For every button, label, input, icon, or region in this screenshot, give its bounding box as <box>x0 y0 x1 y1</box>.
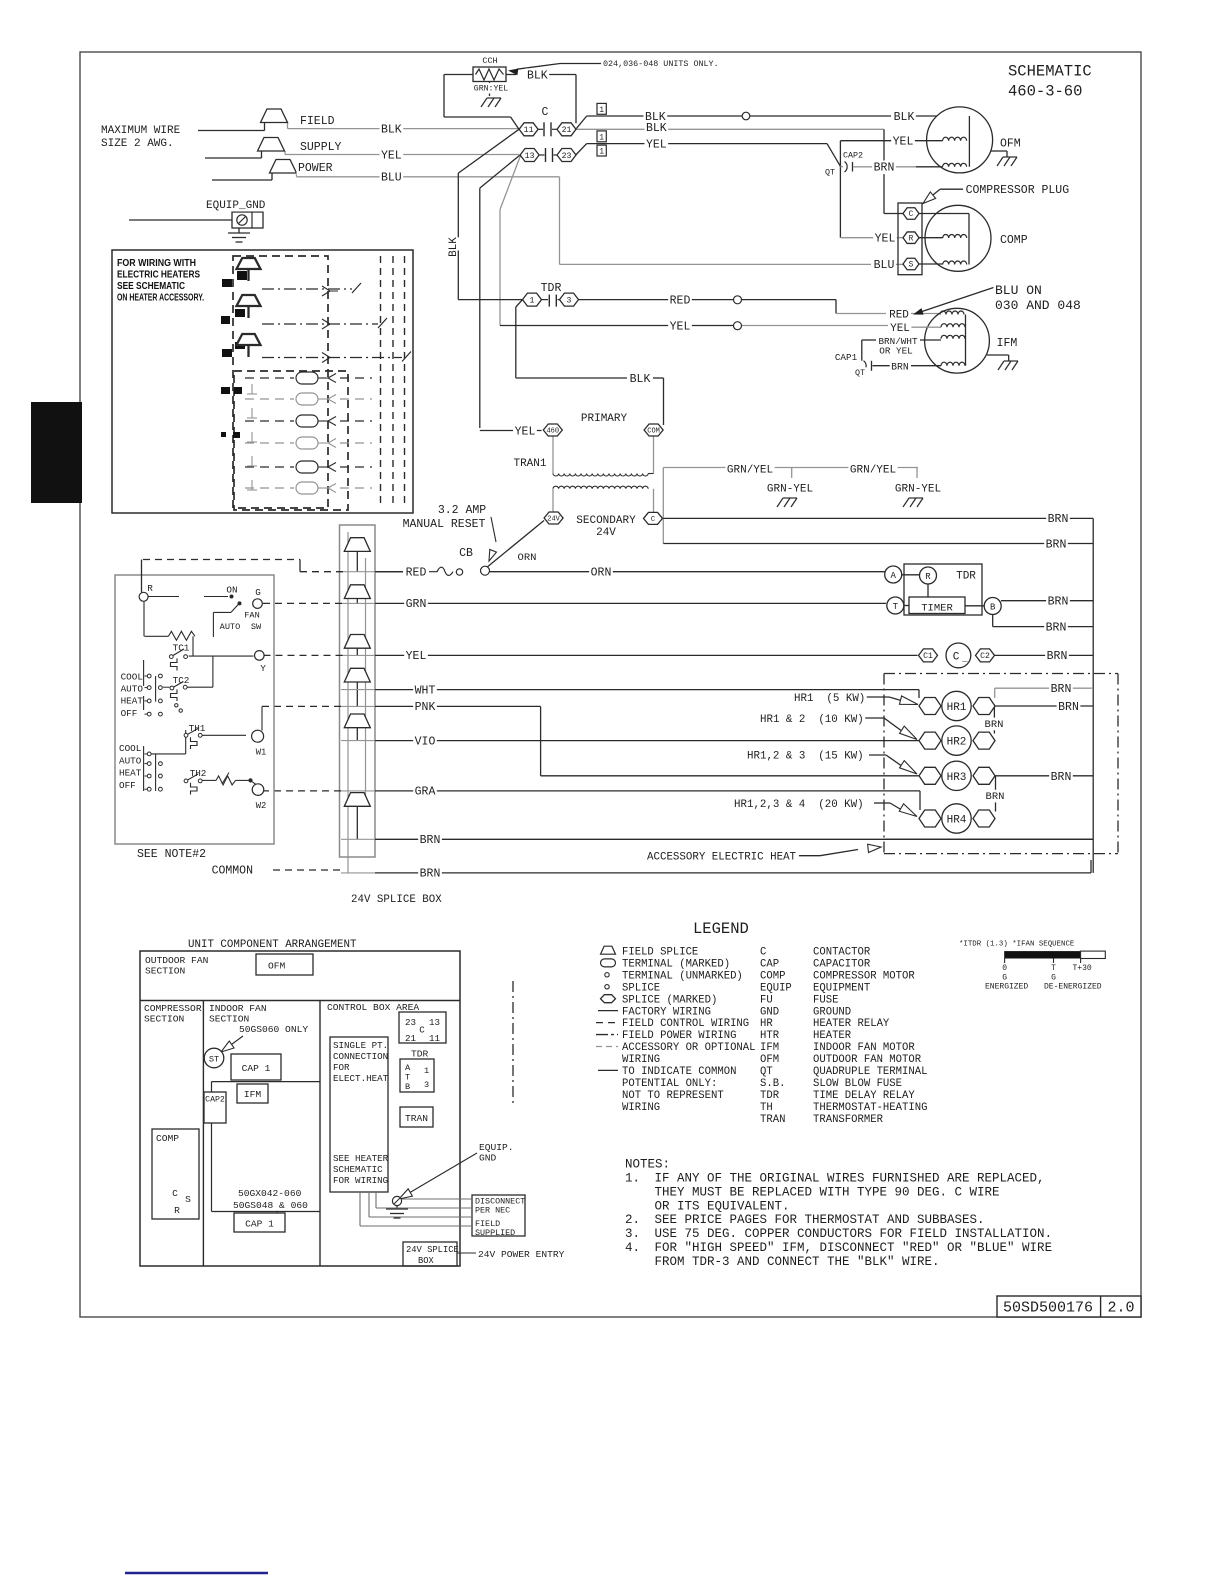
svg-text:GRN-YEL: GRN-YEL <box>895 484 941 496</box>
svg-text:COMP: COMP <box>156 1133 179 1144</box>
svg-text:50GS060 ONLY: 50GS060 ONLY <box>239 1024 308 1035</box>
svg-text:YEL: YEL <box>890 323 910 335</box>
svg-text:FU: FU <box>760 994 773 1006</box>
svg-text:HR4: HR4 <box>947 815 967 827</box>
svg-text:BLU ON: BLU ON <box>995 283 1042 298</box>
svg-text:UNIT COMPONENT ARRANGEMENT: UNIT COMPONENT ARRANGEMENT <box>188 939 357 951</box>
svg-text:3.2 AMP: 3.2 AMP <box>438 504 486 517</box>
svg-text:INDOOR FAN MOTOR: INDOOR FAN MOTOR <box>813 1042 915 1054</box>
svg-text:W2: W2 <box>256 801 267 811</box>
svg-text:HEAT: HEAT <box>121 696 144 707</box>
svg-text:PRIMARY: PRIMARY <box>581 413 628 425</box>
svg-text:C: C <box>953 651 960 663</box>
svg-text:A: A <box>405 1063 411 1073</box>
svg-text:50GS048 & 060: 50GS048 & 060 <box>233 1200 308 1211</box>
svg-text:S: S <box>185 1194 191 1205</box>
svg-text:GRN: GRN <box>406 598 427 611</box>
svg-text:FOR: FOR <box>333 1062 350 1073</box>
svg-text:B: B <box>405 1082 410 1092</box>
svg-text:IFM: IFM <box>760 1042 779 1054</box>
svg-text:ELECT.HEAT: ELECT.HEAT <box>333 1073 389 1084</box>
svg-text:C: C <box>760 947 766 959</box>
svg-text:FOR WIRING WITH: FOR WIRING WITH <box>117 257 196 269</box>
svg-text:21: 21 <box>562 126 572 135</box>
svg-text:IFM: IFM <box>244 1089 262 1100</box>
svg-text:AUTO: AUTO <box>121 683 144 694</box>
svg-text:2.: 2. <box>625 1213 640 1227</box>
svg-text:TIME DELAY RELAY: TIME DELAY RELAY <box>813 1090 915 1102</box>
svg-text:SECONDARY: SECONDARY <box>576 515 636 527</box>
svg-text:FIELD SPLICE: FIELD SPLICE <box>622 947 698 959</box>
svg-text:ON HEATER ACCESSORY.: ON HEATER ACCESSORY. <box>117 292 204 304</box>
svg-text:THEY MUST BE REPLACED WITH TYP: THEY MUST BE REPLACED WITH TYPE 90 DEG. … <box>655 1185 1000 1199</box>
svg-text:B: B <box>990 603 996 613</box>
svg-text:R: R <box>909 235 914 243</box>
svg-text:C: C <box>651 516 655 524</box>
svg-text:A: A <box>890 571 896 581</box>
svg-text:SECTION: SECTION <box>209 1014 249 1025</box>
svg-text:QUADRUPLE TERMINAL: QUADRUPLE TERMINAL <box>813 1066 927 1078</box>
svg-text:SUPPLY: SUPPLY <box>300 141 342 154</box>
svg-text:CAP 1: CAP 1 <box>242 1063 271 1074</box>
svg-text:460: 460 <box>546 427 559 435</box>
svg-text:SCHEMATIC: SCHEMATIC <box>1008 63 1092 81</box>
svg-text:CB: CB <box>459 547 473 560</box>
svg-text:MAXIMUM WIRE: MAXIMUM WIRE <box>101 125 181 137</box>
svg-text:WHT: WHT <box>415 684 436 697</box>
svg-text:W1: W1 <box>256 748 267 758</box>
svg-text:NOTES:: NOTES: <box>625 1158 670 1172</box>
svg-text:CONNECTION: CONNECTION <box>333 1051 388 1062</box>
svg-text:24V SPLICE BOX: 24V SPLICE BOX <box>351 894 442 906</box>
svg-text:SEE NOTE#2: SEE NOTE#2 <box>137 848 206 861</box>
svg-text:TH1: TH1 <box>189 723 206 734</box>
svg-text:ELECTRIC HEATERS: ELECTRIC HEATERS <box>117 269 200 281</box>
svg-text:GRA: GRA <box>415 786 436 799</box>
svg-text:OUTDOOR FAN MOTOR: OUTDOOR FAN MOTOR <box>813 1054 922 1066</box>
svg-text:IFM: IFM <box>997 337 1018 350</box>
svg-text:DE-ENERGIZED: DE-ENERGIZED <box>1044 982 1102 991</box>
svg-text:1.: 1. <box>625 1172 640 1186</box>
svg-text:RED: RED <box>406 567 427 580</box>
svg-text:G: G <box>1002 974 1007 983</box>
svg-text:GRN:YEL: GRN:YEL <box>474 85 508 94</box>
svg-text:OFF: OFF <box>121 708 138 719</box>
svg-text:MANUAL RESET: MANUAL RESET <box>403 518 486 531</box>
svg-text:TERMINAL (MARKED): TERMINAL (MARKED) <box>622 958 730 970</box>
svg-text:BRN: BRN <box>420 868 441 881</box>
svg-text:ACCESSORY ELECTRIC HEAT: ACCESSORY ELECTRIC HEAT <box>647 852 797 864</box>
svg-text:Y: Y <box>260 663 266 674</box>
svg-text:0: 0 <box>1002 964 1007 973</box>
svg-text:TRANSFORMER: TRANSFORMER <box>813 1114 884 1126</box>
svg-text:USE 75 DEG. COPPER CONDUCTORS: USE 75 DEG. COPPER CONDUCTORS FOR FIELD … <box>655 1227 1053 1241</box>
svg-text:TC1: TC1 <box>173 643 190 654</box>
svg-text:OFM: OFM <box>760 1054 779 1066</box>
svg-text:GND: GND <box>760 1006 779 1018</box>
svg-text:PNK: PNK <box>415 701 436 714</box>
svg-text:CAPACITOR: CAPACITOR <box>813 958 871 970</box>
svg-text:PER NEC: PER NEC <box>475 1206 510 1216</box>
svg-text:OR YEL: OR YEL <box>879 346 912 357</box>
svg-text:BRN: BRN <box>1048 513 1069 526</box>
svg-text:BRN: BRN <box>1046 621 1067 634</box>
svg-text:ACCESSORY OR OPTIONAL: ACCESSORY OR OPTIONAL <box>622 1042 756 1054</box>
svg-text:C: C <box>909 211 914 219</box>
svg-text:C: C <box>172 1188 178 1199</box>
svg-text:SEE HEATER: SEE HEATER <box>333 1153 389 1164</box>
svg-text:BRN: BRN <box>874 162 895 175</box>
svg-text:BRN: BRN <box>986 791 1005 803</box>
svg-text:AUTO: AUTO <box>119 755 142 766</box>
svg-text:YEL: YEL <box>670 320 691 333</box>
svg-text:3: 3 <box>424 1080 429 1090</box>
svg-text:COMMON: COMMON <box>212 864 253 877</box>
svg-text:HR1 (5 KW): HR1 (5 KW) <box>794 693 865 705</box>
svg-text:BRN: BRN <box>1047 650 1068 663</box>
svg-text:BRN: BRN <box>985 719 1004 731</box>
svg-text:G: G <box>1051 974 1056 983</box>
svg-text:24V POWER ENTRY: 24V POWER ENTRY <box>478 1249 565 1260</box>
svg-text:HEATER RELAY: HEATER RELAY <box>813 1018 890 1030</box>
svg-text:CAP2: CAP2 <box>843 151 863 161</box>
svg-text:CONTACTOR: CONTACTOR <box>813 947 871 959</box>
svg-text:CAP: CAP <box>760 958 779 970</box>
svg-text:FIELD POWER WIRING: FIELD POWER WIRING <box>622 1030 736 1042</box>
svg-text:POTENTIAL ONLY:: POTENTIAL ONLY: <box>622 1078 717 1090</box>
svg-text:EQUIP: EQUIP <box>760 982 792 994</box>
svg-text:HTR: HTR <box>760 1030 780 1042</box>
svg-text:QT: QT <box>855 368 865 378</box>
svg-text:FIELD CONTROL WIRING: FIELD CONTROL WIRING <box>622 1018 749 1030</box>
svg-text:SW: SW <box>251 622 262 632</box>
svg-text:OFM: OFM <box>1000 138 1021 151</box>
svg-text:TERMINAL (UNMARKED): TERMINAL (UNMARKED) <box>622 970 743 982</box>
svg-text:RED: RED <box>670 294 691 307</box>
svg-text:*ITDR (1.3) *IFAN SEQUENCE: *ITDR (1.3) *IFAN SEQUENCE <box>959 941 1075 949</box>
svg-text:SPLICE (MARKED): SPLICE (MARKED) <box>622 994 717 1006</box>
svg-text:ENERGIZED: ENERGIZED <box>985 982 1028 991</box>
svg-text:FIELD: FIELD <box>300 115 335 128</box>
svg-text:T: T <box>1051 964 1056 973</box>
svg-text:POWER: POWER <box>298 162 333 175</box>
svg-text:SLOW BLOW FUSE: SLOW BLOW FUSE <box>813 1078 902 1090</box>
svg-text:GRN-YEL: GRN-YEL <box>767 484 813 496</box>
svg-text:COOL: COOL <box>119 743 141 754</box>
svg-text:QT: QT <box>825 168 835 178</box>
svg-text:WIRING: WIRING <box>622 1054 660 1066</box>
svg-text:BLK: BLK <box>381 123 402 136</box>
svg-text:EQUIP_GND: EQUIP_GND <box>206 200 266 212</box>
svg-text:TH: TH <box>760 1102 773 1114</box>
svg-text:YEL: YEL <box>515 425 536 438</box>
svg-text:YEL: YEL <box>646 138 667 151</box>
svg-text:TDR: TDR <box>541 282 562 295</box>
svg-text:OFF: OFF <box>119 780 136 791</box>
svg-text:FUSE: FUSE <box>813 994 838 1006</box>
svg-text:TC2: TC2 <box>173 675 190 686</box>
svg-text:IF ANY OF THE ORIGINAL WIRES F: IF ANY OF THE ORIGINAL WIRES FURNISHED A… <box>655 1172 1045 1186</box>
svg-text:YEL: YEL <box>406 650 427 663</box>
svg-text:VIO: VIO <box>415 735 436 748</box>
svg-text:R: R <box>147 583 153 594</box>
svg-text:BLU: BLU <box>874 259 895 272</box>
svg-text:LEGEND: LEGEND <box>693 920 749 938</box>
svg-text:SUPPLIED: SUPPLIED <box>475 1228 515 1238</box>
svg-text:COM: COM <box>647 427 660 435</box>
svg-text:TDR: TDR <box>760 1090 780 1102</box>
svg-text:24V SPLICE: 24V SPLICE <box>406 1245 459 1255</box>
svg-text:FROM TDR-3 AND CONNECT THE "BL: FROM TDR-3 AND CONNECT THE "BLK" WIRE. <box>655 1255 940 1269</box>
svg-text:OFM: OFM <box>268 961 286 972</box>
svg-text:HR1,2,3 & 4 (20 KW): HR1,2,3 & 4 (20 KW) <box>734 799 864 811</box>
svg-text:1: 1 <box>599 106 604 115</box>
svg-text:INDOOR FAN: INDOOR FAN <box>209 1003 267 1014</box>
svg-text:COMP: COMP <box>1000 234 1028 247</box>
svg-text:COMPRESSOR MOTOR: COMPRESSOR MOTOR <box>813 970 915 982</box>
svg-text:OUTDOOR FAN: OUTDOOR FAN <box>145 955 208 966</box>
svg-text:COOL: COOL <box>121 672 143 683</box>
svg-text:BLK: BLK <box>646 122 667 135</box>
svg-text:024,036-048 UNITS ONLY.: 024,036-048 UNITS ONLY. <box>603 59 719 69</box>
svg-text:TO INDICATE COMMON: TO INDICATE COMMON <box>622 1066 736 1078</box>
svg-text:TDR: TDR <box>956 571 976 583</box>
svg-text:G: G <box>255 587 261 598</box>
svg-text:FAN: FAN <box>244 611 259 621</box>
svg-text:BLK: BLK <box>448 237 460 257</box>
svg-text:2.0: 2.0 <box>1107 1300 1134 1317</box>
svg-text:HR1 & 2 (10 KW): HR1 & 2 (10 KW) <box>760 714 864 726</box>
svg-text:BLU: BLU <box>381 172 402 185</box>
svg-text:GRN/YEL: GRN/YEL <box>727 464 773 476</box>
svg-text:NOT TO REPRESENT: NOT TO REPRESENT <box>622 1090 724 1102</box>
svg-text:SIZE 2 AWG.: SIZE 2 AWG. <box>101 138 174 150</box>
svg-text:CAP 1: CAP 1 <box>245 1219 274 1230</box>
svg-text:ON: ON <box>226 585 237 596</box>
svg-text:BRN: BRN <box>420 834 441 847</box>
svg-text:HR2: HR2 <box>947 737 967 749</box>
svg-text:GRN/YEL: GRN/YEL <box>850 464 896 476</box>
svg-text:T: T <box>893 602 899 612</box>
svg-text:HEAT: HEAT <box>119 768 142 779</box>
svg-text:WIRING: WIRING <box>622 1102 660 1114</box>
svg-text:3.: 3. <box>625 1227 640 1241</box>
svg-text:C: C <box>542 106 549 119</box>
svg-text:BLK: BLK <box>894 111 915 124</box>
svg-text:1: 1 <box>424 1066 429 1076</box>
svg-text:SEE PRICE PAGES FOR THERMOSTAT: SEE PRICE PAGES FOR THERMOSTAT AND SUBBA… <box>655 1213 985 1227</box>
svg-text:COMP: COMP <box>760 970 785 982</box>
svg-text:BRN: BRN <box>1046 538 1067 551</box>
svg-text:TIMER: TIMER <box>921 603 953 615</box>
svg-text:460-3-60: 460-3-60 <box>1008 83 1082 101</box>
svg-text:50SD500176: 50SD500176 <box>1003 1300 1093 1317</box>
svg-text:QT: QT <box>760 1066 773 1078</box>
svg-text:C2: C2 <box>980 652 990 661</box>
svg-text:1: 1 <box>599 134 604 143</box>
svg-text:T+30: T+30 <box>1073 964 1092 973</box>
svg-text:ST: ST <box>209 1055 219 1065</box>
svg-text:SPLICE: SPLICE <box>622 982 660 994</box>
svg-text:EQUIP.: EQUIP. <box>479 1142 514 1153</box>
svg-text:030 AND 048: 030 AND 048 <box>995 298 1081 313</box>
svg-text:CONTROL BOX AREA: CONTROL BOX AREA <box>327 1002 419 1013</box>
svg-text:SEE SCHEMATIC: SEE SCHEMATIC <box>117 280 185 292</box>
svg-text:SECTION: SECTION <box>145 966 185 977</box>
svg-text:1: 1 <box>530 296 535 305</box>
svg-text:BLK: BLK <box>527 69 548 82</box>
svg-text:SECTION: SECTION <box>144 1014 184 1025</box>
svg-text:R: R <box>174 1205 180 1216</box>
svg-text:BRN: BRN <box>1051 771 1072 784</box>
svg-text:RED: RED <box>889 309 909 321</box>
svg-text:S.B.: S.B. <box>760 1078 785 1090</box>
svg-text:C: C <box>419 1025 425 1036</box>
svg-text:FACTORY WIRING: FACTORY WIRING <box>622 1006 711 1018</box>
svg-text:1: 1 <box>599 148 604 157</box>
svg-text:R: R <box>925 572 931 582</box>
svg-text:EQUIPMENT: EQUIPMENT <box>813 982 870 994</box>
svg-text:T: T <box>405 1073 410 1083</box>
svg-text:HEATER: HEATER <box>813 1030 852 1042</box>
svg-text:3: 3 <box>567 296 572 305</box>
svg-text:TRAN: TRAN <box>760 1114 785 1126</box>
svg-text:21: 21 <box>405 1033 417 1044</box>
svg-text:23: 23 <box>562 152 572 161</box>
svg-text:BRN: BRN <box>891 362 909 373</box>
svg-text:HR1,2 & 3 (15 KW): HR1,2 & 3 (15 KW) <box>747 751 864 763</box>
svg-text:HR: HR <box>760 1018 773 1030</box>
svg-text:TRAN1: TRAN1 <box>513 458 546 470</box>
svg-text:FOR WIRING: FOR WIRING <box>333 1175 388 1186</box>
svg-text:TRAN: TRAN <box>405 1113 428 1124</box>
svg-text:4.: 4. <box>625 1241 640 1255</box>
svg-text:24V: 24V <box>547 515 560 523</box>
svg-text:BRN: BRN <box>1048 596 1069 609</box>
svg-text:SINGLE PT.: SINGLE PT. <box>333 1040 388 1051</box>
svg-text:BOX: BOX <box>418 1256 435 1266</box>
svg-text:CAP2: CAP2 <box>205 1096 225 1105</box>
svg-text:GND: GND <box>479 1153 497 1164</box>
svg-text:13: 13 <box>429 1017 440 1028</box>
svg-text:THERMOSTAT-HEATING: THERMOSTAT-HEATING <box>813 1102 927 1114</box>
svg-text:COMPRESSOR PLUG: COMPRESSOR PLUG <box>966 184 1070 197</box>
svg-text:11: 11 <box>524 126 534 135</box>
svg-text:YEL: YEL <box>875 233 896 246</box>
svg-text:SCHEMATIC: SCHEMATIC <box>333 1164 383 1175</box>
svg-text:HR1: HR1 <box>947 702 967 714</box>
svg-text:YEL: YEL <box>893 136 914 149</box>
svg-text:BRN: BRN <box>1058 701 1079 714</box>
svg-text:OR ITS EQUIVALENT.: OR ITS EQUIVALENT. <box>655 1199 790 1213</box>
svg-text:ORN: ORN <box>518 552 537 564</box>
svg-text:BRN: BRN <box>1051 683 1072 696</box>
svg-text:C1: C1 <box>923 652 933 661</box>
svg-text:_: _ <box>961 654 968 664</box>
svg-text:TH2: TH2 <box>190 768 207 779</box>
svg-text:YEL: YEL <box>381 149 402 162</box>
svg-text:50GX042-060: 50GX042-060 <box>238 1188 302 1199</box>
svg-text:S: S <box>909 262 914 270</box>
svg-text:GROUND: GROUND <box>813 1006 851 1018</box>
svg-text:ORN: ORN <box>591 567 612 580</box>
svg-text:23: 23 <box>405 1017 416 1028</box>
svg-text:COMPRESSOR: COMPRESSOR <box>144 1003 202 1014</box>
svg-text:11: 11 <box>429 1033 441 1044</box>
svg-text:24V: 24V <box>596 527 616 539</box>
svg-text:CCH: CCH <box>482 56 497 66</box>
svg-text:13: 13 <box>525 152 535 161</box>
svg-text:HR3: HR3 <box>947 772 967 784</box>
svg-text:AUTO: AUTO <box>220 622 241 632</box>
svg-text:FOR "HIGH SPEED" IFM, DISCONNE: FOR "HIGH SPEED" IFM, DISCONNECT "RED" O… <box>655 1241 1053 1255</box>
svg-text:BLK: BLK <box>630 373 651 386</box>
svg-text:TDR: TDR <box>411 1049 429 1060</box>
svg-text:CAP1: CAP1 <box>835 352 858 363</box>
